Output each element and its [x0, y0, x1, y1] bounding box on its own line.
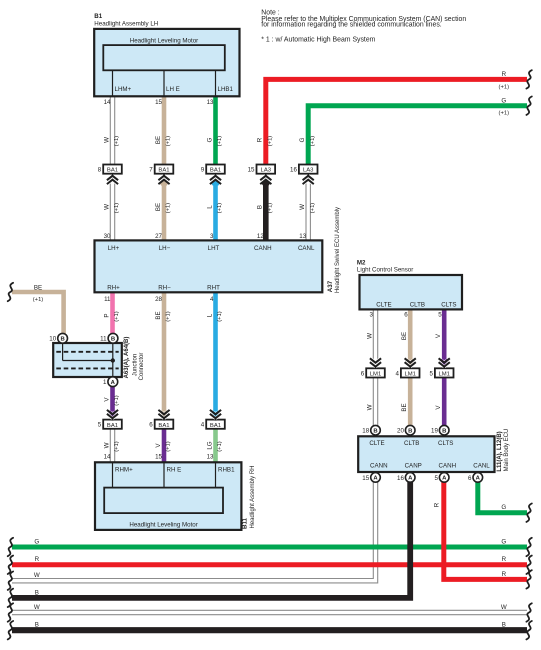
svg-text:Headlight Swivel ECU Assembly: Headlight Swivel ECU Assembly — [335, 207, 341, 293]
svg-text:R: R — [502, 571, 507, 578]
svg-text:18: 18 — [362, 428, 369, 435]
svg-text:CLTS: CLTS — [438, 440, 453, 447]
svg-text:CANL: CANL — [298, 245, 315, 252]
svg-text:G: G — [299, 137, 306, 142]
svg-text:P: P — [103, 313, 110, 317]
svg-text:LH+: LH+ — [108, 245, 120, 252]
svg-text:1: 1 — [103, 379, 107, 386]
svg-text:B: B — [408, 429, 412, 435]
svg-text:B: B — [111, 337, 115, 343]
svg-text:15: 15 — [155, 99, 162, 106]
svg-text:G: G — [206, 137, 213, 142]
svg-text:W: W — [366, 404, 373, 410]
svg-text:15: 15 — [362, 475, 369, 482]
svg-text:for information regarding the: for information regarding the shielded c… — [261, 22, 441, 29]
svg-text:4: 4 — [395, 370, 399, 377]
svg-text:Light Control Sensor: Light Control Sensor — [357, 267, 413, 274]
svg-text:(+1): (+1) — [217, 311, 223, 322]
svg-text:LH−: LH− — [159, 245, 171, 252]
svg-text:(+1): (+1) — [310, 136, 316, 147]
svg-text:4: 4 — [210, 296, 214, 303]
svg-text:RH+: RH+ — [107, 285, 120, 292]
svg-text:15: 15 — [155, 454, 162, 461]
svg-text:CLTE: CLTE — [369, 440, 384, 447]
svg-text:12: 12 — [257, 233, 264, 240]
svg-text:L: L — [206, 205, 213, 209]
svg-text:11: 11 — [104, 296, 111, 303]
svg-text:6: 6 — [468, 475, 472, 482]
svg-text:B: B — [35, 622, 39, 629]
svg-text:BE: BE — [34, 284, 42, 291]
svg-text:BE: BE — [401, 403, 408, 411]
svg-text:LH E: LH E — [166, 86, 180, 93]
svg-text:G: G — [501, 504, 506, 511]
svg-text:10: 10 — [49, 336, 56, 343]
svg-text:B: B — [257, 205, 264, 209]
svg-text:3: 3 — [370, 312, 374, 319]
svg-text:W: W — [34, 604, 40, 611]
svg-text:LHT: LHT — [208, 245, 220, 252]
svg-text:6: 6 — [361, 370, 365, 377]
svg-text:BA1: BA1 — [107, 423, 118, 429]
svg-text:CANL: CANL — [473, 462, 490, 469]
svg-text:(+1): (+1) — [114, 203, 120, 214]
svg-text:(+1): (+1) — [499, 111, 510, 117]
svg-text:RHM+: RHM+ — [115, 466, 133, 473]
svg-text:14: 14 — [104, 99, 111, 106]
svg-text:CLTB: CLTB — [410, 302, 425, 309]
svg-text:(+1): (+1) — [267, 136, 273, 147]
svg-text:W: W — [34, 572, 40, 579]
svg-text:BE: BE — [155, 136, 162, 144]
svg-text:B: B — [502, 622, 506, 629]
svg-text:Junction: Junction — [133, 354, 139, 376]
svg-text:(+1): (+1) — [310, 203, 316, 214]
svg-text:(+1): (+1) — [267, 203, 273, 214]
svg-text:6: 6 — [404, 312, 408, 319]
svg-text:13: 13 — [207, 454, 214, 461]
svg-text:8: 8 — [98, 167, 102, 174]
svg-text:30: 30 — [104, 233, 111, 240]
svg-text:A: A — [442, 476, 447, 482]
svg-text:27: 27 — [155, 233, 162, 240]
svg-text:B1: B1 — [94, 13, 102, 20]
svg-text:G: G — [34, 538, 39, 545]
svg-text:A: A — [111, 380, 116, 386]
svg-text:(+1): (+1) — [217, 441, 223, 452]
svg-text:A: A — [476, 476, 481, 482]
svg-text:(+1): (+1) — [166, 203, 172, 214]
svg-text:CANH: CANH — [254, 245, 272, 252]
svg-text:Headlight Assembly LH: Headlight Assembly LH — [94, 20, 158, 27]
svg-text:LM1: LM1 — [370, 372, 381, 378]
svg-text:RH E: RH E — [167, 466, 182, 473]
svg-text:13: 13 — [299, 233, 306, 240]
svg-text:M2: M2 — [357, 260, 366, 267]
svg-text:6: 6 — [149, 422, 153, 429]
svg-text:(+1): (+1) — [217, 203, 223, 214]
svg-text:(+1): (+1) — [114, 311, 120, 322]
svg-text:Headlight Leveling Motor: Headlight Leveling Motor — [129, 522, 197, 529]
svg-text:15: 15 — [248, 167, 255, 174]
svg-text:G: G — [501, 538, 506, 545]
svg-text:13: 13 — [207, 99, 214, 106]
svg-text:11: 11 — [100, 336, 107, 343]
svg-text:* 1 : w/ Automatic High Beam S: * 1 : w/ Automatic High Beam System — [261, 36, 375, 43]
svg-text:LA3: LA3 — [261, 168, 272, 174]
svg-text:BE: BE — [401, 332, 408, 340]
svg-text:(+1): (+1) — [499, 84, 510, 90]
svg-text:BE: BE — [155, 203, 162, 211]
svg-text:Connector: Connector — [139, 353, 145, 381]
svg-text:9: 9 — [201, 167, 205, 174]
svg-text:LHB1: LHB1 — [218, 86, 234, 93]
svg-text:R: R — [433, 502, 440, 507]
svg-text:5: 5 — [434, 475, 438, 482]
svg-text:5: 5 — [98, 422, 102, 429]
svg-text:A: A — [373, 476, 378, 482]
svg-text:B: B — [35, 589, 39, 596]
svg-text:CANN: CANN — [370, 462, 388, 469]
svg-text:BA1: BA1 — [107, 168, 118, 174]
svg-text:R: R — [257, 137, 264, 142]
svg-text:W: W — [103, 137, 110, 143]
svg-text:3: 3 — [210, 233, 214, 240]
svg-text:R: R — [35, 556, 40, 563]
svg-text:B11: B11 — [242, 517, 249, 529]
svg-text:(+1): (+1) — [166, 441, 172, 452]
svg-text:16: 16 — [290, 167, 297, 174]
svg-text:A37: A37 — [327, 280, 334, 292]
svg-text:(+1): (+1) — [33, 297, 44, 303]
svg-text:CLTS: CLTS — [441, 302, 456, 309]
svg-text:19: 19 — [431, 428, 438, 435]
svg-text:LHM+: LHM+ — [115, 86, 132, 93]
svg-text:A: A — [408, 476, 413, 482]
svg-text:Headlight Assembly RH: Headlight Assembly RH — [250, 465, 256, 528]
svg-text:(+1): (+1) — [114, 136, 120, 147]
svg-text:BA1: BA1 — [158, 168, 169, 174]
svg-text:20: 20 — [397, 428, 404, 435]
svg-text:LG: LG — [206, 441, 213, 449]
svg-text:L: L — [206, 313, 213, 317]
svg-text:(+1): (+1) — [166, 311, 172, 322]
svg-text:14: 14 — [104, 454, 111, 461]
svg-text:R: R — [502, 556, 507, 563]
svg-text:28: 28 — [155, 296, 162, 303]
svg-text:BA1: BA1 — [210, 168, 221, 174]
svg-text:5: 5 — [429, 370, 433, 377]
svg-text:LA3: LA3 — [303, 168, 314, 174]
svg-text:G: G — [501, 98, 506, 105]
svg-text:Headlight Leveling Motor: Headlight Leveling Motor — [130, 38, 198, 45]
svg-text:W: W — [103, 442, 110, 448]
svg-text:RH−: RH− — [158, 285, 171, 292]
svg-text:CANP: CANP — [405, 462, 422, 469]
svg-text:LM1: LM1 — [438, 372, 449, 378]
svg-text:(+1): (+1) — [217, 136, 223, 147]
svg-text:CLTB: CLTB — [404, 440, 419, 447]
svg-text:BA1: BA1 — [210, 423, 221, 429]
svg-text:BE: BE — [155, 311, 162, 319]
svg-text:W: W — [366, 333, 373, 339]
svg-text:L11(A), L12(B): L11(A), L12(B) — [497, 431, 503, 471]
svg-text:R: R — [502, 71, 507, 78]
svg-text:CANH: CANH — [439, 462, 457, 469]
svg-text:(+1): (+1) — [114, 395, 120, 406]
svg-text:BA1: BA1 — [158, 423, 169, 429]
svg-text:4: 4 — [201, 422, 205, 429]
svg-text:B: B — [442, 429, 446, 435]
svg-text:W: W — [501, 604, 507, 611]
svg-text:LM1: LM1 — [404, 372, 415, 378]
svg-text:W: W — [103, 204, 110, 210]
svg-text:7: 7 — [149, 167, 153, 174]
svg-text:16: 16 — [397, 475, 404, 482]
svg-text:B: B — [60, 337, 64, 343]
svg-text:CLTE: CLTE — [376, 302, 391, 309]
svg-text:A63(A), A64(B): A63(A), A64(B) — [124, 337, 130, 379]
svg-text:5: 5 — [438, 312, 442, 319]
svg-text:RHT: RHT — [207, 285, 220, 292]
svg-text:RHB1: RHB1 — [218, 466, 235, 473]
svg-text:Main Body ECU: Main Body ECU — [504, 429, 510, 472]
svg-text:(+1): (+1) — [114, 441, 120, 452]
svg-text:B: B — [373, 429, 377, 435]
svg-text:W: W — [299, 204, 306, 210]
svg-text:(+1): (+1) — [166, 136, 172, 147]
